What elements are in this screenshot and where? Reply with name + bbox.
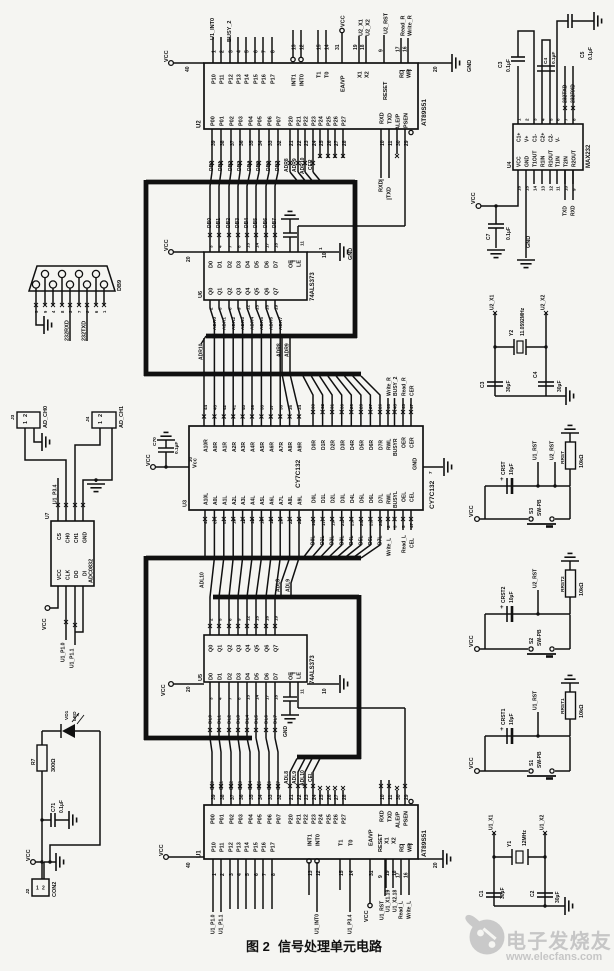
svg-text:ADL9: ADL9 bbox=[286, 579, 292, 592]
svg-text:AT89S51: AT89S51 bbox=[421, 99, 428, 126]
svg-text:33: 33 bbox=[311, 403, 316, 409]
svg-text:A9R: A9R bbox=[298, 442, 304, 452]
svg-text:12: 12 bbox=[300, 44, 306, 50]
svg-text:1: 1 bbox=[516, 118, 521, 121]
svg-text:ADR10: ADR10 bbox=[300, 157, 306, 174]
svg-text:P04: P04 bbox=[249, 115, 255, 126]
svg-text:30: 30 bbox=[339, 403, 344, 409]
svg-text:U1_X1.19: U1_X1.19 bbox=[385, 890, 391, 912]
svg-text:D5L: D5L bbox=[359, 536, 365, 545]
svg-text:P25: P25 bbox=[327, 814, 333, 824]
svg-text:BUSY_2: BUSY_2 bbox=[227, 21, 233, 42]
svg-text:C1+: C1+ bbox=[517, 133, 523, 142]
svg-text:6: 6 bbox=[555, 118, 560, 121]
svg-text:P16: P16 bbox=[262, 842, 268, 852]
svg-text:P03: P03 bbox=[239, 116, 245, 126]
svg-text:VCC: VCC bbox=[57, 569, 63, 580]
svg-text:D4L: D4L bbox=[349, 536, 355, 545]
svg-text:P05: P05 bbox=[258, 116, 264, 126]
svg-text:Read_R: Read_R bbox=[400, 15, 406, 36]
CY7C132 left-port pin numbers bbox=[203, 517, 383, 526]
svg-text:CH0: CH0 bbox=[66, 533, 72, 543]
svg-text:40: 40 bbox=[186, 862, 192, 868]
svg-text:1: 1 bbox=[98, 421, 104, 424]
svg-text:ADL9: ADL9 bbox=[292, 771, 298, 784]
svg-text:D6L: D6L bbox=[368, 536, 374, 545]
svg-text:232TXD: 232TXD bbox=[562, 84, 568, 103]
capacitor C4 30uF bbox=[533, 371, 563, 392]
svg-text:ADR2: ADR2 bbox=[231, 317, 237, 330]
Y2 block ground bbox=[495, 387, 574, 405]
svg-text:VCC: VCC bbox=[42, 618, 48, 630]
svg-text:22: 22 bbox=[297, 794, 303, 800]
svg-text:U3: U3 bbox=[183, 500, 189, 507]
svg-text:4: 4 bbox=[540, 118, 545, 121]
svg-text:Q5: Q5 bbox=[255, 645, 261, 652]
svg-text:D1: D1 bbox=[218, 261, 224, 268]
svg-text:TXD: TXD bbox=[388, 113, 394, 124]
svg-text:D3L: D3L bbox=[339, 536, 345, 545]
svg-text:10: 10 bbox=[380, 140, 386, 146]
svg-text:VCC: VCC bbox=[517, 156, 523, 167]
svg-text:5: 5 bbox=[401, 525, 406, 528]
svg-text:GND: GND bbox=[526, 236, 532, 248]
svg-text:P26: P26 bbox=[334, 116, 340, 126]
svg-text:D2R: D2R bbox=[331, 440, 337, 450]
wire bundle ADR8 ADR9 ADR10 CER bbox=[277, 172, 320, 374]
svg-text:16: 16 bbox=[264, 615, 269, 621]
svg-text:43: 43 bbox=[213, 404, 218, 410]
svg-text:29: 29 bbox=[404, 140, 410, 146]
svg-text:11: 11 bbox=[388, 794, 394, 800]
capacitor C5 0.1uF on V- to ground bbox=[557, 12, 602, 124]
svg-text:20: 20 bbox=[186, 686, 192, 692]
svg-text:DB6: DB6 bbox=[266, 161, 272, 171]
svg-text:P23: P23 bbox=[312, 814, 318, 824]
svg-text:C3: C3 bbox=[480, 381, 486, 388]
svg-text:D7L: D7L bbox=[379, 494, 385, 503]
svg-text:DL0: DL0 bbox=[207, 715, 213, 724]
svg-text:14: 14 bbox=[254, 242, 259, 248]
svg-text:U2: U2 bbox=[197, 120, 203, 128]
svg-text:21: 21 bbox=[289, 794, 295, 800]
MAX232 bottom pin numbers bbox=[516, 170, 576, 191]
wire J3 to ADC0832 CH0 bbox=[25, 428, 68, 521]
svg-text:ADR10: ADR10 bbox=[199, 343, 205, 360]
svg-text:Read_L: Read_L bbox=[401, 535, 407, 553]
svg-text:30: 30 bbox=[396, 140, 402, 146]
net labels DB0-DB7 upper bbox=[209, 161, 281, 171]
svg-text:P13: P13 bbox=[237, 74, 243, 84]
svg-text:12: 12 bbox=[548, 185, 553, 191]
svg-text:5: 5 bbox=[217, 618, 222, 621]
svg-text:RESET: RESET bbox=[383, 81, 389, 100]
watermark elecfans text bbox=[505, 929, 612, 963]
svg-text:31: 31 bbox=[330, 403, 335, 409]
svg-text:A3R: A3R bbox=[241, 442, 247, 452]
ADC0832 top pin names bbox=[57, 532, 89, 544]
svg-text:4: 4 bbox=[217, 245, 222, 248]
wires ADR10 ADR8 ADR9 to CY7C132 address pins bbox=[199, 338, 301, 426]
svg-text:LE: LE bbox=[297, 260, 303, 267]
nets U1_P1.0 U1_P1.1 bbox=[210, 859, 224, 934]
MAX232 top pin names C1+ V+ C1- C2+ C2- V- bbox=[516, 118, 576, 142]
svg-text:38: 38 bbox=[220, 794, 226, 800]
svg-text:Read_L: Read_L bbox=[398, 901, 404, 919]
svg-text:13: 13 bbox=[540, 185, 545, 191]
svg-text:CER: CER bbox=[308, 159, 314, 170]
net labels U1_INT0 BUSY_2 bbox=[210, 5, 233, 42]
svg-text:8: 8 bbox=[271, 50, 277, 53]
svg-text:2: 2 bbox=[208, 618, 213, 621]
capacitor C3 30uF bbox=[480, 381, 512, 393]
svg-text:D3: D3 bbox=[237, 673, 243, 680]
MAX232 VCC pin capacitor C7 0.1uF bbox=[471, 170, 518, 258]
svg-text:ADR1: ADR1 bbox=[221, 317, 227, 330]
svg-text:Q0: Q0 bbox=[209, 288, 215, 295]
svg-text:D6L: D6L bbox=[369, 494, 375, 503]
svg-text:SW-PB: SW-PB bbox=[537, 499, 543, 516]
svg-text:GND: GND bbox=[83, 532, 89, 544]
reset circuit S2 CRST2 RRST2 10k bbox=[469, 553, 585, 656]
resistor R7 300ohm bbox=[31, 731, 57, 879]
svg-text:Q6: Q6 bbox=[265, 645, 271, 652]
dual-port RAM U3 CY7C132 body bbox=[183, 426, 437, 510]
svg-text:P21: P21 bbox=[297, 814, 303, 824]
svg-text:DB5: DB5 bbox=[256, 161, 262, 171]
svg-text:1: 1 bbox=[212, 50, 218, 53]
svg-text:4: 4 bbox=[217, 697, 222, 700]
microcontroller U1 AT89S51 body bbox=[197, 805, 429, 859]
svg-text:INT1: INT1 bbox=[292, 74, 298, 86]
svg-text:U1_P3.4: U1_P3.4 bbox=[52, 484, 58, 504]
svg-text:74ALS373: 74ALS373 bbox=[310, 272, 316, 301]
line driver U4 MAX232 body bbox=[507, 124, 592, 170]
svg-text:CRST1: CRST1 bbox=[501, 708, 507, 725]
svg-text:43: 43 bbox=[401, 403, 406, 409]
svg-text:VCC: VCC bbox=[469, 505, 475, 517]
connector J3 AD_CH0 bbox=[10, 406, 49, 428]
svg-text:CY7C132: CY7C132 bbox=[429, 480, 436, 509]
reset circuit S3 CRST RRST 10k bbox=[469, 425, 585, 526]
svg-text:P02: P02 bbox=[230, 814, 236, 824]
latch U6 OE pin decoupling to ground bbox=[281, 211, 306, 252]
svg-text:P14: P14 bbox=[245, 841, 251, 852]
svg-text:ADL8: ADL8 bbox=[284, 771, 290, 784]
svg-text:CLK: CLK bbox=[66, 569, 72, 580]
svg-text:GND: GND bbox=[467, 60, 473, 72]
svg-text:37: 37 bbox=[230, 794, 236, 800]
U1 RESET pin 9 net U1_RST bbox=[378, 833, 385, 920]
svg-text:ADR7: ADR7 bbox=[278, 317, 284, 330]
svg-text:R2OUT: R2OUT bbox=[572, 150, 578, 167]
svg-text:DB0: DB0 bbox=[207, 218, 213, 228]
svg-text:8: 8 bbox=[236, 245, 241, 248]
svg-text:Vcc: Vcc bbox=[193, 458, 199, 468]
svg-text:13: 13 bbox=[245, 694, 250, 700]
svg-text:DB1: DB1 bbox=[218, 161, 224, 171]
svg-text:A7R: A7R bbox=[279, 442, 285, 452]
svg-text:A1R: A1R bbox=[222, 442, 228, 452]
latch U6 VCC pin 20 bbox=[164, 239, 204, 262]
svg-text:41: 41 bbox=[231, 404, 236, 410]
svg-text:X2: X2 bbox=[392, 837, 398, 844]
wire J4 pin2 and ADC0832 GND to ground bbox=[81, 428, 112, 521]
svg-text:35: 35 bbox=[288, 404, 293, 410]
svg-text:18: 18 bbox=[360, 44, 366, 50]
U2 RESET pin 9 net U2_RST bbox=[378, 12, 389, 100]
wire bundle DB0-DB7 into latch U6 bbox=[207, 172, 278, 252]
svg-text:31: 31 bbox=[369, 870, 375, 876]
svg-text:Q2: Q2 bbox=[228, 288, 234, 295]
svg-text:D7: D7 bbox=[274, 261, 280, 268]
svg-text:P26: P26 bbox=[334, 814, 340, 824]
svg-text:A10L: A10L bbox=[204, 493, 210, 505]
svg-text:P16: P16 bbox=[262, 74, 268, 84]
svg-text:S1: S1 bbox=[529, 760, 535, 766]
svg-text:Q5: Q5 bbox=[255, 288, 261, 295]
svg-text:RXD: RXD bbox=[379, 180, 385, 192]
svg-text:3: 3 bbox=[208, 697, 213, 700]
svg-text:6: 6 bbox=[254, 50, 260, 53]
svg-text:A5L: A5L bbox=[260, 496, 266, 505]
svg-text:GND: GND bbox=[283, 726, 289, 738]
svg-text:ADL10: ADL10 bbox=[300, 770, 306, 786]
LED VD1 bbox=[42, 710, 100, 738]
svg-text:TXD: TXD bbox=[387, 187, 393, 198]
svg-text:DB1: DB1 bbox=[216, 218, 222, 228]
U2 port P1.0-P1.7 pins 1-8 bbox=[212, 37, 277, 84]
svg-text:DL5: DL5 bbox=[253, 715, 259, 724]
svg-text:D6: D6 bbox=[265, 261, 271, 268]
wire bundle D0L-D7L CY7C132 to lower bus bbox=[303, 510, 384, 558]
svg-text:CON2: CON2 bbox=[52, 882, 58, 897]
svg-text:VCC: VCC bbox=[364, 910, 370, 922]
J3 pin 2 ground bbox=[34, 428, 50, 451]
svg-text:10µF: 10µF bbox=[509, 464, 515, 476]
capacitor C1 30uF bbox=[479, 888, 506, 900]
svg-text:ADR8: ADR8 bbox=[284, 158, 290, 172]
svg-text:36: 36 bbox=[278, 404, 283, 410]
svg-text:D6: D6 bbox=[265, 673, 271, 680]
svg-text:图 2: 图 2 bbox=[246, 939, 270, 954]
svg-text:D5: D5 bbox=[255, 261, 261, 268]
svg-text:10: 10 bbox=[322, 252, 328, 258]
U1 RD WR pins 17 16 nets Read_L Write_L bbox=[396, 843, 414, 919]
svg-text:14: 14 bbox=[254, 694, 259, 700]
svg-text:U2_RST: U2_RST bbox=[549, 441, 555, 460]
svg-text:Write_L: Write_L bbox=[406, 901, 412, 919]
svg-text:LED: LED bbox=[72, 711, 78, 721]
svg-text:C70: C70 bbox=[152, 437, 158, 446]
svg-text:P00: P00 bbox=[211, 116, 217, 126]
svg-text:U1_P1.1: U1_P1.1 bbox=[218, 914, 224, 934]
crystal Y2 11.0592MHz bbox=[493, 307, 547, 355]
svg-text:DL3: DL3 bbox=[235, 715, 241, 724]
svg-text:A2L: A2L bbox=[232, 496, 238, 505]
svg-text:10µF: 10µF bbox=[509, 714, 515, 726]
svg-text:CEL: CEL bbox=[308, 772, 314, 782]
svg-text:U1_P1.0: U1_P1.0 bbox=[210, 914, 216, 934]
svg-text:0.1µF: 0.1µF bbox=[551, 52, 557, 64]
svg-text:30µF: 30µF bbox=[557, 381, 563, 393]
svg-text:TXD: TXD bbox=[562, 206, 568, 216]
svg-text:Y1: Y1 bbox=[507, 841, 513, 847]
wire latch U5 LE to U1 PSEN bbox=[298, 682, 407, 805]
svg-text:INT0: INT0 bbox=[316, 834, 322, 846]
svg-text:D1R: D1R bbox=[321, 440, 327, 450]
svg-text:232RXD: 232RXD bbox=[65, 320, 71, 341]
svg-text:P11: P11 bbox=[220, 75, 226, 84]
svg-text:D3L: D3L bbox=[340, 494, 346, 503]
svg-text:A2R: A2R bbox=[232, 442, 238, 452]
svg-text:D6R: D6R bbox=[369, 440, 375, 450]
svg-text:A7L: A7L bbox=[279, 496, 285, 505]
svg-text:VCC: VCC bbox=[469, 635, 475, 647]
svg-text:GND: GND bbox=[525, 156, 531, 168]
svg-text:37: 37 bbox=[269, 404, 274, 410]
connector J2 CON2 bbox=[25, 862, 58, 897]
svg-text:P24: P24 bbox=[319, 115, 325, 126]
svg-text:+: + bbox=[500, 477, 504, 483]
svg-text:P25: P25 bbox=[327, 116, 333, 126]
svg-text:Q4: Q4 bbox=[246, 287, 252, 295]
svg-text:ALE/P: ALE/P bbox=[396, 811, 402, 828]
svg-text:232RXD: 232RXD bbox=[570, 84, 576, 103]
svg-text:C5: C5 bbox=[580, 51, 586, 58]
svg-text:U1_RST: U1_RST bbox=[532, 441, 538, 460]
svg-text:ADR9: ADR9 bbox=[292, 158, 298, 172]
svg-text:D7R: D7R bbox=[379, 440, 385, 450]
svg-text:P21: P21 bbox=[297, 116, 303, 126]
svg-text:R1OUT: R1OUT bbox=[549, 150, 555, 167]
svg-text:4: 4 bbox=[237, 50, 243, 53]
svg-text:Q7: Q7 bbox=[274, 288, 280, 295]
svg-text:0.1µF: 0.1µF bbox=[174, 442, 180, 454]
svg-text:10: 10 bbox=[563, 185, 568, 191]
svg-text:Y2: Y2 bbox=[509, 330, 515, 336]
svg-text:X1: X1 bbox=[358, 71, 364, 78]
svg-text:20: 20 bbox=[186, 256, 192, 262]
svg-text:DB7: DB7 bbox=[275, 161, 281, 171]
latch U6 pin names D0-D7 Q0-Q7 OE LE bbox=[209, 260, 303, 295]
U2 GND pin 20 ground bbox=[418, 54, 473, 72]
svg-text:U2_RST: U2_RST bbox=[383, 12, 389, 34]
svg-text:A0R: A0R bbox=[213, 442, 219, 452]
CY7C132 GND pin ground bbox=[413, 458, 452, 476]
svg-text:U2_X1: U2_X1 bbox=[359, 19, 365, 36]
svg-text:3: 3 bbox=[229, 50, 235, 53]
svg-text:9: 9 bbox=[236, 618, 241, 621]
U1 EA/VP pin 31 to VCC bbox=[364, 829, 375, 922]
svg-text:DL7: DL7 bbox=[272, 715, 278, 724]
capacitor C3 0.1uF on C1+/C1- bbox=[498, 31, 534, 124]
svg-text:RRST: RRST bbox=[560, 451, 566, 464]
svg-text:DB4: DB4 bbox=[244, 218, 250, 228]
svg-text:SW-PB: SW-PB bbox=[537, 629, 543, 646]
svg-text:23: 23 bbox=[304, 794, 310, 800]
svg-text:10kΩ: 10kΩ bbox=[579, 704, 585, 718]
svg-text:CS: CS bbox=[57, 532, 63, 540]
svg-text:11.0592MHz: 11.0592MHz bbox=[520, 307, 526, 336]
svg-text:信号处理单元电路: 信号处理单元电路 bbox=[278, 939, 383, 954]
svg-text:28: 28 bbox=[359, 403, 364, 409]
svg-text:12: 12 bbox=[316, 870, 322, 876]
svg-text:Q7: Q7 bbox=[274, 645, 280, 652]
svg-text:D5L: D5L bbox=[360, 494, 366, 503]
svg-text:7: 7 bbox=[227, 245, 232, 248]
svg-text:10: 10 bbox=[322, 688, 328, 694]
svg-text:www.elecfans.com: www.elecfans.com bbox=[505, 951, 602, 963]
svg-text:14: 14 bbox=[532, 185, 537, 191]
svg-text:15: 15 bbox=[524, 185, 529, 191]
svg-text:2: 2 bbox=[98, 414, 104, 417]
svg-text:Write_R: Write_R bbox=[407, 15, 413, 36]
svg-text:15: 15 bbox=[339, 870, 345, 876]
svg-text:+: + bbox=[500, 605, 504, 611]
svg-text:24: 24 bbox=[312, 794, 318, 800]
svg-text:T1: T1 bbox=[339, 840, 345, 846]
svg-text:A10R: A10R bbox=[204, 439, 210, 452]
svg-text:D4R: D4R bbox=[350, 440, 356, 450]
latch U5 VCC pin 20 bbox=[161, 682, 204, 696]
svg-text:39: 39 bbox=[250, 404, 255, 410]
svg-text:C7: C7 bbox=[486, 233, 492, 240]
svg-text:C4: C4 bbox=[533, 371, 539, 378]
svg-text:U6: U6 bbox=[198, 291, 204, 298]
svg-text:Write_L: Write_L bbox=[386, 538, 392, 556]
svg-text:U2_RST: U2_RST bbox=[532, 569, 538, 588]
svg-text:GND: GND bbox=[413, 458, 419, 470]
svg-text:1: 1 bbox=[36, 886, 39, 892]
microcontroller U2 AT89S51 body bbox=[197, 63, 429, 129]
svg-text:P27: P27 bbox=[342, 116, 348, 126]
CY7C132 right-port control pin names bbox=[387, 437, 416, 456]
svg-text:0.1µF: 0.1µF bbox=[588, 47, 594, 60]
svg-text:26: 26 bbox=[378, 403, 383, 409]
svg-text:D7L: D7L bbox=[378, 536, 384, 545]
svg-text:DL1: DL1 bbox=[216, 715, 222, 724]
svg-text:A6L: A6L bbox=[269, 496, 275, 505]
svg-text:Q1: Q1 bbox=[218, 645, 224, 652]
svg-text:DB3: DB3 bbox=[237, 161, 243, 171]
svg-text:D5R: D5R bbox=[360, 440, 366, 450]
svg-text:3: 3 bbox=[393, 525, 398, 528]
svg-text:P15: P15 bbox=[254, 842, 260, 852]
svg-text:U2_X1: U2_X1 bbox=[489, 294, 495, 310]
svg-text:DB0: DB0 bbox=[209, 161, 215, 171]
wire bundle ADL0-ADL7 CY7C132 to latch U5 bbox=[208, 510, 280, 635]
CY7C132 left-port control nets Write_L Read_L CEL bbox=[386, 510, 415, 556]
svg-text:P00: P00 bbox=[211, 814, 217, 824]
svg-text:ADR5: ADR5 bbox=[259, 317, 265, 330]
svg-text:BUSYR: BUSYR bbox=[393, 438, 399, 456]
svg-text:31: 31 bbox=[335, 44, 341, 50]
svg-text:U5: U5 bbox=[198, 674, 204, 681]
U2 crystal pins X1 X2 nets U2_X1 U2_X2 bbox=[353, 19, 371, 78]
watermark elecfans logo bbox=[465, 915, 504, 955]
svg-text:16: 16 bbox=[404, 872, 410, 878]
svg-text:30: 30 bbox=[188, 457, 193, 462]
svg-text:300Ω: 300Ω bbox=[51, 758, 57, 772]
CY7C132 right-port data pin names D7R-D0R bbox=[312, 440, 385, 450]
svg-text:ADR9: ADR9 bbox=[285, 343, 291, 357]
svg-text:11: 11 bbox=[300, 241, 306, 246]
svg-text:9: 9 bbox=[378, 49, 384, 52]
svg-text:P12: P12 bbox=[229, 842, 235, 852]
svg-text:10kΩ: 10kΩ bbox=[579, 582, 585, 596]
svg-text:A1L: A1L bbox=[222, 496, 228, 505]
